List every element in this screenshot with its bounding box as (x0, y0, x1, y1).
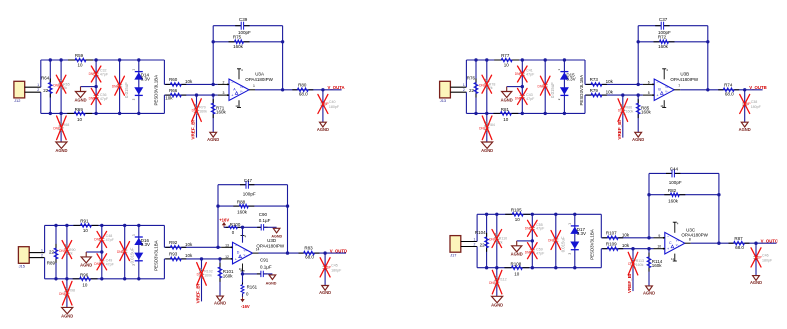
resistor R93 10k (164, 252, 221, 261)
svg-text:10: 10 (83, 228, 89, 233)
svg-text:160k: 160k (223, 273, 234, 278)
svg-text:AGND: AGND (739, 127, 751, 132)
resistor R91 10 (73, 218, 98, 233)
capacitor C37 100pF (feedback) (638, 17, 708, 35)
svg-text:R60: R60 (169, 77, 178, 82)
U3A pin 1 (output) (249, 84, 255, 90)
wire - feedback right vertical (717, 173, 720, 245)
wire - input bus upper (465, 60, 467, 87)
svg-text:AGND: AGND (319, 290, 331, 295)
svg-text:47pF: 47pF (526, 97, 535, 101)
label PESD3V3L1BA (579, 75, 584, 106)
svg-text:2: 2 (37, 88, 39, 92)
svg-text:C47: C47 (244, 178, 253, 183)
capacitor C48 47pF (DNP, crossed out) (94, 225, 114, 252)
U3B pin 5 (non-inverting input) (643, 91, 654, 96)
svg-text:AGND: AGND (61, 314, 73, 319)
svg-text:R81: R81 (501, 107, 510, 112)
svg-text:47pF: 47pF (106, 238, 115, 242)
U3A V- power pin 11 (235, 100, 241, 108)
capacitor C44 100pF (feedback) (649, 167, 719, 186)
svg-text:C40: C40 (329, 100, 336, 104)
svg-text:47pF: 47pF (536, 227, 545, 231)
svg-text:10: 10 (504, 63, 510, 68)
resistor R114 160k (647, 249, 663, 286)
svg-text:10k: 10k (606, 79, 614, 84)
net label VREF_BI (617, 120, 622, 139)
svg-text:OPA4180PW: OPA4180PW (681, 233, 708, 238)
resistor R161 0 (241, 274, 258, 297)
svg-text:C39: C39 (239, 17, 248, 22)
svg-text:C45: C45 (331, 264, 338, 268)
net label VREF_BI (627, 274, 632, 293)
svg-text:AGND: AGND (266, 282, 277, 286)
svg-text:2: 2 (463, 88, 465, 92)
resistor R96 10 (73, 272, 98, 287)
label PESD3V3L1BA (153, 240, 158, 271)
svg-text:180pF: 180pF (751, 105, 762, 109)
wire - cap midpoint to AGND (507, 85, 524, 92)
svg-text:DNP: DNP (548, 239, 555, 243)
U3C pin 10 (non-inverting input) (654, 245, 665, 250)
resistor R85 160k (636, 95, 651, 132)
J13 pin 1 (450, 83, 466, 87)
U3D V- power pin 11 (239, 264, 245, 272)
svg-text:DNP: DNP (53, 127, 60, 131)
svg-text:10k: 10k (622, 233, 630, 238)
svg-text:12: 12 (225, 255, 229, 259)
svg-text:10: 10 (82, 282, 88, 287)
svg-text:160k: 160k (668, 198, 679, 203)
svg-text:160k: 160k (652, 263, 663, 268)
svg-text:VREF_BI: VREF_BI (627, 274, 632, 293)
resistor R101 160k (218, 259, 234, 296)
wire - top rail (45, 224, 165, 227)
wire - feedback left vertical (216, 185, 219, 248)
svg-text:DNP: DNP (489, 281, 496, 285)
wire - input bus upper (44, 225, 46, 252)
resistor R90 (DNP, crossed out) (59, 225, 75, 278)
svg-text:V−: V− (244, 253, 248, 257)
capacitor 0.015uF (DNP, crossed out) (537, 60, 554, 113)
svg-text:R92: R92 (169, 240, 178, 245)
U3D pin 14 (output) (253, 248, 260, 254)
svg-text:47pF: 47pF (100, 97, 109, 101)
svg-text:5: 5 (648, 91, 650, 95)
svg-text:J12: J12 (14, 98, 20, 103)
svg-text:R76: R76 (467, 76, 476, 81)
svg-text:68.0: 68.0 (735, 245, 744, 250)
svg-text:22: 22 (49, 249, 55, 254)
svg-text:100pF: 100pF (243, 191, 256, 196)
svg-text:V−: V− (665, 90, 669, 94)
op-amp U3B OPA4180IPW (654, 79, 674, 101)
capacitor C59 47pF (DNP, crossed out) (525, 241, 545, 268)
net label V_OUTD (330, 249, 347, 254)
wire - right edge upper (163, 60, 165, 84)
svg-text:U3A: U3A (255, 71, 264, 76)
svg-text:DNP: DNP (479, 127, 486, 131)
resistor R112 (DNP, crossed out) (489, 268, 507, 297)
svg-text:7: 7 (678, 84, 680, 88)
svg-text:68.0: 68.0 (305, 255, 314, 260)
svg-text:160k: 160k (626, 110, 634, 114)
svg-text:2: 2 (474, 242, 476, 246)
resistor R75 160k (feedback) (213, 35, 282, 49)
capacitor C41 47pF (DNP, crossed out) (515, 60, 535, 87)
U3C pin 9 (inverting input) (654, 234, 665, 239)
wire - output (255, 88, 342, 91)
J17 pin 2 (461, 242, 477, 246)
resistor R100 0 (224, 222, 243, 235)
resistor R105 10 (505, 207, 530, 222)
svg-text:R69: R69 (75, 107, 84, 112)
resistor R77 10 (494, 53, 519, 68)
U3A pin 3 (non-inverting input) (218, 91, 229, 96)
svg-text:DNP: DNP (537, 84, 544, 88)
connector J13 (440, 81, 451, 103)
svg-text:V+: V+ (665, 85, 669, 89)
svg-text:AGND: AGND (643, 291, 655, 296)
resistor R71 160k (211, 95, 226, 132)
resistor R78 (DNP, crossed out) (479, 60, 495, 113)
diode D16 3.3V PESD3V3L1BA (dual TVS) (132, 225, 150, 278)
wire - input bus lower (476, 247, 478, 268)
net label V_OUTA (328, 85, 345, 90)
ground - AGND below R114 (643, 286, 655, 296)
wire - feedback left vertical (212, 26, 215, 85)
wire - V- supply node (241, 271, 244, 276)
wire - feedback left vertical (647, 173, 650, 237)
svg-text:3.3V: 3.3V (577, 231, 586, 236)
svg-text:11: 11 (239, 267, 242, 271)
svg-text:9: 9 (658, 234, 660, 238)
ground - AGND below R68 (55, 142, 67, 153)
J15 pin 1 (29, 248, 44, 252)
wire - feedback right vertical (281, 26, 284, 92)
svg-text:AGND: AGND (80, 263, 92, 268)
capacitor C90 0.1uF (243, 212, 277, 230)
connector J12 (14, 81, 25, 103)
J17 pin 1 (461, 237, 477, 241)
svg-text:C38: C38 (751, 100, 758, 104)
wire - right edge lower (600, 249, 602, 268)
svg-text:R83: R83 (304, 246, 313, 251)
svg-text:AGND: AGND (74, 97, 86, 102)
svg-text:AGND: AGND (317, 127, 329, 132)
resistor R76 22 (467, 60, 478, 113)
svg-text:160k: 160k (216, 110, 227, 115)
label PESD3V3L1BA (589, 229, 594, 260)
svg-text:C91: C91 (260, 258, 269, 263)
ground - AGND at cap midpoint (511, 246, 523, 257)
wire - feedback right vertical (286, 185, 289, 255)
svg-text:+16V: +16V (219, 217, 229, 222)
svg-text:V−: V− (676, 243, 680, 247)
wire - bottom rail (45, 277, 165, 280)
svg-text:DNP: DNP (89, 72, 96, 76)
svg-text:R77: R77 (501, 53, 510, 58)
svg-text:160k: 160k (641, 110, 652, 115)
svg-text:1: 1 (41, 248, 43, 252)
svg-text:10k: 10k (165, 96, 173, 101)
ground - AGND below R112 (491, 296, 503, 307)
svg-text:C46: C46 (762, 254, 769, 258)
U3B V- power pin 11 (660, 100, 666, 108)
svg-text:100pF: 100pF (669, 180, 682, 185)
resistor R109 10k (601, 242, 653, 251)
wire - top rail (466, 58, 585, 61)
svg-text:180pF: 180pF (329, 105, 340, 109)
net label V_OUTC (761, 239, 778, 244)
U3A V+ power pin 4 (237, 68, 243, 79)
svg-text:R112: R112 (498, 278, 506, 282)
svg-text:R109: R109 (606, 242, 617, 247)
resistor R107 10k (601, 231, 653, 240)
power +16V (219, 217, 229, 227)
wire - cap midpoint to AGND (81, 85, 98, 92)
capacitor C47 100pF (feedback) (218, 178, 288, 197)
svg-text:DNP: DNP (515, 72, 522, 76)
svg-text:AGND: AGND (501, 97, 513, 102)
label U3A / OPA4180IPW (245, 71, 273, 82)
ground - AGND below R98 (61, 307, 73, 318)
capacitor C45 180pF (DNP, crossed out) (320, 253, 342, 285)
svg-text:8: 8 (689, 238, 691, 242)
resistor R74 68.0 (718, 82, 739, 96)
svg-text:PESD3V3L1BA: PESD3V3L1BA (153, 240, 158, 271)
svg-text:OPA4180IPW: OPA4180IPW (245, 77, 273, 82)
svg-text:R161: R161 (247, 284, 258, 289)
svg-text:180pF: 180pF (762, 258, 773, 262)
capacitor C38 180pF (DNP, crossed out) (740, 90, 762, 122)
resistor R98 (DNP, crossed out) (59, 279, 75, 308)
svg-text:160k: 160k (636, 263, 644, 267)
label PESD3V3L1BA (153, 75, 158, 106)
wire - right edge upper (600, 214, 602, 238)
svg-text:160k: 160k (204, 273, 212, 277)
capacitor C49 47pF (DNP, crossed out) (94, 252, 114, 279)
connector J17 (450, 236, 461, 258)
svg-text:AGND: AGND (481, 148, 493, 153)
svg-text:C44: C44 (670, 167, 679, 172)
ground - AGND below R101 (214, 296, 226, 306)
svg-text:V+: V+ (244, 249, 248, 253)
resistor R73 10k (585, 77, 643, 86)
svg-text:6: 6 (648, 80, 650, 84)
ground - AGND at cap midpoint (74, 92, 86, 103)
wire - feedback right vertical (706, 26, 709, 92)
svg-text:U3D: U3D (267, 238, 277, 243)
U3C V- power pin 11 (671, 254, 677, 262)
svg-text:1: 1 (463, 83, 465, 87)
ground - AGND below C46 (750, 276, 762, 286)
svg-text:OPA4180IPW: OPA4180IPW (256, 244, 284, 249)
ground - AGND at cap midpoint (80, 257, 92, 268)
wire - right edge lower (163, 95, 165, 113)
resistor R69 10 (67, 107, 92, 122)
svg-text:DNP: DNP (117, 250, 124, 254)
svg-text:3.3V: 3.3V (566, 77, 575, 82)
wire - right edge lower (163, 259, 165, 279)
wire - bottom rail (477, 266, 601, 269)
capacitor C91 0.1uF (243, 258, 273, 278)
resistor R72 160k (feedback) (638, 35, 708, 49)
svg-text:R59: R59 (75, 53, 84, 58)
svg-text:VREF_BI: VREF_BI (196, 284, 201, 303)
svg-text:2: 2 (223, 80, 225, 84)
svg-text:160k: 160k (237, 210, 248, 215)
svg-text:R107: R107 (606, 231, 617, 236)
svg-text:R73: R73 (590, 77, 599, 82)
svg-text:68.0: 68.0 (299, 91, 308, 96)
svg-text:R82: R82 (668, 188, 677, 193)
svg-text:47pF: 47pF (106, 262, 115, 266)
svg-text:R108: R108 (511, 261, 522, 266)
wire - V+ supply node (241, 226, 244, 243)
svg-text:AGND: AGND (491, 303, 503, 308)
capacitor C32 47pF (DNP, crossed out) (89, 60, 109, 87)
label U3D / OPA4180IPW (256, 238, 284, 249)
svg-text:AGND: AGND (214, 301, 226, 306)
wire - input bus lower (465, 92, 467, 113)
svg-text:AGND: AGND (750, 280, 762, 285)
svg-text:R74: R74 (724, 82, 733, 87)
svg-text:J15: J15 (19, 264, 25, 269)
ground - AGND below C40 (317, 122, 329, 132)
svg-text:2: 2 (41, 253, 43, 257)
svg-text:1: 1 (37, 83, 39, 87)
svg-text:10: 10 (657, 245, 661, 249)
svg-text:0.1µF: 0.1µF (259, 218, 271, 223)
svg-text:0.1µF: 0.1µF (260, 265, 272, 270)
svg-text:11: 11 (235, 104, 238, 108)
op-amp U3A OPA4180IPW (229, 79, 249, 101)
svg-text:C90: C90 (259, 212, 268, 217)
svg-text:VREF_BI: VREF_BI (617, 120, 622, 139)
svg-text:C37: C37 (659, 17, 668, 22)
svg-text:22: 22 (480, 243, 486, 248)
svg-text:10k: 10k (606, 89, 614, 94)
svg-text:47pF: 47pF (526, 72, 535, 76)
capacitor C36 47pF (DNP, crossed out) (89, 87, 109, 114)
svg-text:-16V: -16V (241, 304, 250, 309)
net label VREF_BI (196, 284, 201, 303)
svg-text:AGND: AGND (207, 137, 219, 142)
svg-text:R89: R89 (47, 261, 56, 266)
svg-text:V−: V− (240, 90, 244, 94)
U3A pin 2 (inverting input) (218, 80, 229, 85)
label U3B / OPA4180IPW (670, 71, 698, 82)
resistor R60 10k (164, 77, 217, 86)
svg-text:DNP: DNP (112, 84, 119, 88)
J15 pin 2 (29, 253, 44, 257)
svg-text:AGND: AGND (271, 235, 282, 239)
svg-text:DNP: DNP (59, 292, 66, 296)
svg-text:R64: R64 (41, 76, 50, 81)
U3B pin 7 (output) (674, 84, 680, 90)
capacitor 0.015uF (DNP, crossed out) (112, 60, 129, 113)
svg-text:10k: 10k (185, 242, 193, 247)
ground - AGND below C45 (319, 286, 331, 296)
svg-text:10: 10 (503, 117, 509, 122)
svg-text:PESD3V3L1BA: PESD3V3L1BA (579, 75, 584, 106)
U3D pin 12 (non-inverting input) (221, 255, 232, 260)
wire - top rail (477, 213, 601, 216)
resistor R66 10k (164, 88, 217, 101)
op-amp U3D OPA4180IPW (233, 242, 253, 264)
capacitor 0.015uF (DNP, crossed out) (117, 225, 134, 278)
svg-text:10: 10 (77, 63, 83, 68)
J13 pin 2 (450, 88, 466, 92)
ground - AGND below R85 (632, 132, 644, 142)
svg-text:3: 3 (223, 91, 225, 95)
resistor R68 (DNP, crossed out) (53, 113, 69, 142)
resistor R113 160k (DNP, crossed out) (628, 249, 644, 291)
wire - output (680, 88, 762, 91)
ground - AGND below C38 (739, 122, 751, 132)
resistor R104 22 (475, 214, 489, 267)
svg-text:0.015uF: 0.015uF (124, 82, 129, 98)
svg-text:V_OUTD: V_OUTD (330, 249, 347, 254)
svg-text:11: 11 (671, 257, 674, 261)
svg-text:U3B: U3B (680, 71, 689, 76)
svg-text:C: C (669, 241, 672, 245)
svg-text:R88: R88 (237, 200, 246, 205)
capacitor C55 47pF (DNP, crossed out) (525, 214, 545, 241)
svg-text:R105: R105 (511, 207, 522, 212)
capacitor C39 100pF (feedback) (213, 17, 282, 35)
svg-text:22: 22 (43, 88, 49, 93)
svg-text:47pF: 47pF (536, 251, 545, 255)
wire - bottom rail (41, 112, 165, 115)
resistor R88 160k (feedback) (218, 200, 288, 215)
svg-text:J13: J13 (440, 98, 446, 103)
svg-text:10k: 10k (185, 79, 193, 84)
svg-text:R93: R93 (169, 252, 178, 257)
resistor R81 10 (493, 107, 518, 122)
svg-text:R96: R96 (80, 272, 89, 277)
op-amp U3C OPA4180PW (665, 232, 685, 254)
resistor R64 22 (41, 60, 52, 113)
U3D V+ power pin 4 (241, 235, 247, 239)
J12 pin 1 (25, 83, 41, 87)
svg-text:22: 22 (469, 88, 475, 93)
svg-text:0.015uF: 0.015uF (560, 236, 565, 252)
svg-text:V+: V+ (240, 85, 244, 89)
power -16V (240, 297, 250, 309)
svg-text:10: 10 (515, 217, 521, 222)
U3B V+ power pin 4 (662, 68, 668, 79)
svg-text:AGND: AGND (55, 148, 67, 153)
svg-text:V_OUTB: V_OUTB (749, 85, 766, 90)
wire - right edge upper (584, 60, 586, 84)
resistor R59 10 (68, 53, 93, 68)
svg-text:R87: R87 (734, 236, 743, 241)
svg-text:180pF: 180pF (331, 268, 342, 272)
svg-text:3.3V: 3.3V (141, 77, 150, 82)
resistor R83 68.0 (299, 246, 320, 260)
svg-text:R80: R80 (298, 82, 307, 87)
diode D17 3.3V PESD3V3L1BA (dual TVS) (568, 214, 586, 267)
wire - output (691, 242, 777, 245)
wire - input bus upper (40, 60, 42, 87)
wire - cap midpoint to AGND (517, 239, 534, 246)
svg-text:11: 11 (660, 104, 663, 108)
svg-text:R72: R72 (658, 35, 667, 40)
svg-text:47pF: 47pF (100, 72, 109, 76)
svg-text:PESD3V3L1BA: PESD3V3L1BA (589, 229, 594, 260)
